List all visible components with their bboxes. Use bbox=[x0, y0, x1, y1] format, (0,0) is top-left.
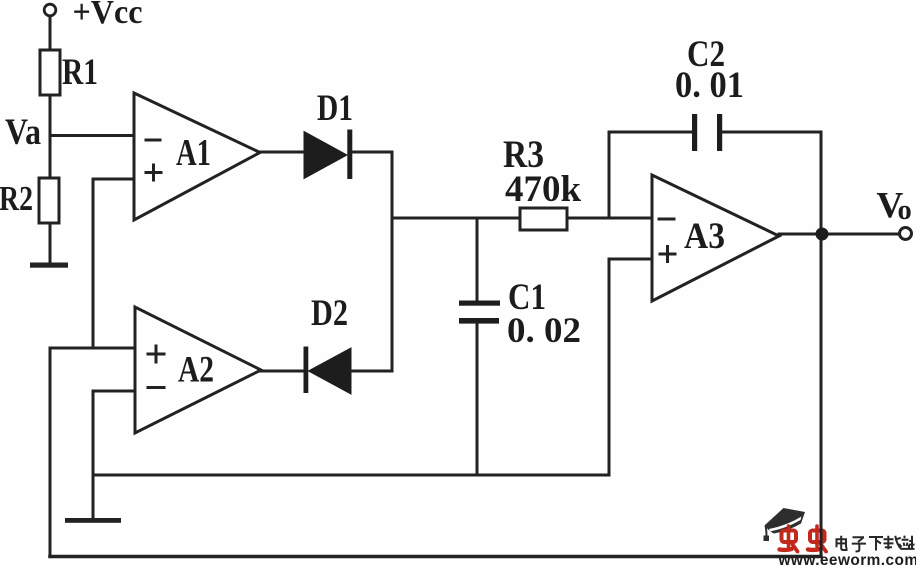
wire feedback to C2 bbox=[609, 131, 692, 134]
capacitor C1 bbox=[476, 218, 479, 300]
wire A1 noninverting input bbox=[93, 178, 134, 181]
wire Va to A1 inverting input bbox=[50, 134, 134, 137]
wire A2 inverting input bbox=[93, 390, 135, 393]
wire output column down bbox=[820, 132, 823, 557]
wire bottom rail bbox=[50, 555, 821, 559]
terminal +Vcc bbox=[44, 4, 56, 16]
wire A3 inverting branch up bbox=[608, 132, 611, 218]
ground (below R2) bbox=[30, 263, 68, 268]
svg-text:o: o bbox=[898, 195, 912, 226]
wire R2 to ground bbox=[49, 223, 52, 264]
wire middle node to A3 bbox=[392, 217, 520, 220]
resistor R3 bbox=[520, 208, 567, 230]
resistor R1 bbox=[40, 50, 60, 95]
wire A1 plus down to A2 plus net bbox=[92, 179, 95, 348]
op-amp A1 bbox=[134, 93, 260, 220]
svg-text:0. 02: 0. 02 bbox=[507, 310, 581, 350]
cap tassel bbox=[766, 525, 767, 536]
node output junction bbox=[816, 228, 829, 241]
wire C2 to output column bbox=[722, 131, 821, 134]
svg-text:D2: D2 bbox=[311, 293, 348, 334]
wire A1 output to D1 bbox=[260, 151, 305, 154]
svg-text:Va: Va bbox=[5, 112, 41, 153]
diode D1 bbox=[304, 132, 347, 179]
op-amp A2 bbox=[135, 307, 261, 433]
wire left rail down bbox=[49, 348, 52, 557]
svg-text:R2: R2 bbox=[0, 180, 33, 218]
ground (A2 inverting) bbox=[65, 518, 121, 523]
svg-text:470k: 470k bbox=[505, 169, 581, 210]
wire A3 output to Vo bbox=[779, 233, 899, 236]
wire Vcc to R1 bbox=[49, 16, 52, 50]
svg-text:www.eeworm.com: www.eeworm.com bbox=[778, 552, 916, 566]
svg-text:0. 01: 0. 01 bbox=[675, 65, 744, 106]
wire A2 output to D2 bbox=[261, 370, 304, 373]
wire vertical D1/D2 junction column bbox=[391, 152, 394, 371]
A3 minus sign bbox=[659, 218, 674, 221]
A3 plus sign bbox=[660, 253, 675, 256]
cap board and body bbox=[765, 508, 805, 534]
op-amp A3 bbox=[652, 175, 779, 301]
terminal Vo bbox=[900, 228, 912, 240]
A1 minus sign bbox=[146, 139, 160, 142]
wire A2 inverting to ground bbox=[92, 391, 95, 520]
svg-text:A3: A3 bbox=[684, 216, 725, 257]
wire A3 noninverting branch bbox=[609, 258, 652, 261]
diode D2 bbox=[304, 347, 309, 394]
A2 minus sign bbox=[148, 386, 164, 389]
svg-text:+Vcc: +Vcc bbox=[73, 0, 143, 31]
svg-text:R1: R1 bbox=[62, 52, 98, 93]
wire D2 to corner bbox=[351, 370, 392, 373]
wire R1 to R2 bbox=[49, 95, 52, 178]
capacitor C2 bbox=[692, 114, 697, 151]
svg-text:A1: A1 bbox=[176, 132, 211, 174]
wire D1 cathode to corner bbox=[352, 151, 392, 154]
wire ground rail bbox=[93, 474, 609, 477]
svg-text:A2: A2 bbox=[178, 350, 214, 391]
watermark text chongchong bbox=[780, 526, 827, 552]
watermark logo bbox=[764, 508, 916, 566]
A1 plus sign bbox=[146, 171, 161, 174]
A2 plus sign bbox=[148, 353, 164, 356]
resistor R2 bbox=[39, 178, 59, 223]
watermark text dianzixiazaizhan bbox=[837, 536, 915, 552]
svg-text:D1: D1 bbox=[317, 88, 353, 129]
wire A2 noninverting input bbox=[50, 347, 135, 350]
